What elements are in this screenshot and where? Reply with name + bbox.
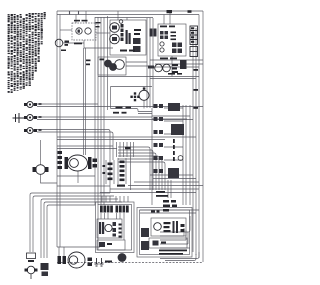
box5 text rows [159,250,187,252]
box5 left cluster 1 [141,228,149,237]
wire top bus ticks [70,11,79,15]
label bk row [116,107,123,109]
wire row y186 [57,185,110,187]
box3 switch 1 [154,104,158,108]
box2 pilot circle 1 [160,42,164,46]
wire connA bracket [106,160,114,184]
box3 bottom dashes [156,191,165,193]
bottom-left relay marks [28,260,34,262]
notes column 6 [23,18,25,89]
bus label ticks [96,22,101,23]
bandB marks [99,242,105,247]
wire bus row 4a [57,136,196,138]
box3 pilot circle [178,156,183,161]
cascade tick [125,147,131,149]
pre-box5 cluster [163,200,169,203]
wire right mid row 5 [110,188,199,190]
box3 switch 4 [154,143,158,147]
arrow dash [105,261,112,263]
right row marks 2 [172,64,178,66]
subboxA marks [113,222,117,226]
wire box4 pin drops B [117,213,125,240]
wire nest corner 2 [33,196,114,252]
wire right row y60 [150,59,203,61]
lamp circle B [55,39,63,47]
wire nest corner 5 [47,205,96,258]
box4 bottom-center outline [96,202,135,253]
box4 header pins A [100,206,103,213]
fan capacitor star [134,92,136,94]
wire cascade 6 [118,162,165,190]
lampbox label [100,59,105,61]
clock circle 1 [76,28,82,34]
wire fan feed loop [111,87,153,114]
bottom motor ellipse [68,252,85,268]
box5 feed ticks [151,210,155,212]
wire box5 bandD outline [149,238,187,248]
box3 lower cluster [168,168,179,178]
wire right mid row 1 [150,174,193,176]
box5 bottom-right outline [137,208,192,258]
wire box3 stub 1 [164,107,183,109]
wire right labels row1 [155,63,203,65]
wire nest corner 4 [44,202,122,258]
wire bottom nest 1 [160,252,199,259]
wire right bus 4 [192,31,194,252]
box1 bottom dashes [120,50,127,52]
wire fan vertical 6 [130,142,132,190]
box3 below-cluster drops [168,180,171,198]
bottom-left lamp tail [30,274,32,279]
wire cascade 4 [118,156,159,190]
motor right marks [93,159,98,163]
wire fan vertical 2 [116,142,118,157]
wire box1-box2 vertical 1 [146,18,148,108]
bottom-left relay box [27,253,36,259]
right row marks 1 [148,66,154,69]
box1 right marks top [134,29,141,31]
box5 left cluster 2 [141,241,149,250]
plug symbol [13,113,25,123]
terminal strip TB1 [190,26,198,45]
bandD marks [153,241,159,246]
connector B pins [120,161,125,164]
right row label below [168,73,175,75]
wire bottomright h5 [160,247,190,249]
connector column pins [58,151,63,154]
box1 lamp circle top [110,23,120,33]
wire row y176 [57,175,95,177]
notes column 4 [17,15,19,91]
wire box1-box2 vertical 3 [152,18,154,108]
wire box3 stub 5 [164,159,183,161]
subboxA bars left [99,222,101,234]
box1 center bars [126,30,128,44]
right row circle 2 [163,64,171,72]
wire motor tail [77,171,79,183]
wire clock top drops [76,11,86,23]
lampbox dark lamp 1 [104,60,112,68]
wire circleB right [63,42,84,44]
wire mid verticals b [85,48,87,155]
box1 right cluster [133,38,141,44]
wire center bus 5 [107,16,109,110]
wire center bus 4 [103,17,105,205]
notes column 1 [8,14,10,93]
subboxA circle [105,224,112,231]
wire box3 stub 2 [164,120,183,122]
wire bottom-left shelf [57,246,100,248]
wire box5 subboxC outline [151,218,186,236]
wire right row y76 [150,77,199,79]
wire top bus N [95,17,153,19]
top bus tick right 2 [188,10,192,13]
wire right mid row 3 [134,181,199,183]
wire pin drops [102,196,128,202]
bottom-left lamp [27,266,35,274]
box1 contact column [121,24,124,28]
wire box4 subboxA outline [97,219,122,238]
box3 top cluster [168,103,180,111]
wire fan vertical 1 [112,150,114,160]
wire right border [202,11,204,262]
notes column 7 [26,14,28,86]
wire supply row 3a [37,130,110,194]
bottom-left switch blob [41,263,49,270]
wire bottomright stubs [184,228,188,244]
fan motor circle [139,90,149,100]
wire box1-box2 vertical 2 [149,18,151,108]
connector A pins [108,163,113,166]
wire right mid row 4 [128,185,203,187]
wire right bus 3 [195,28,197,255]
mid bus labels [86,60,91,62]
subboxC pins [181,224,185,227]
box2 top label [160,26,167,28]
bottom-left switch blob 2 [42,272,49,277]
box1 lamp top filament [112,26,117,30]
notes column 12 [41,13,43,44]
wire bus row 5a [57,145,113,147]
notes column 3 [14,14,16,91]
wire motor drop bottom [41,175,58,184]
top bus tick right 1 [167,10,173,13]
wire bus row 4b [57,139,165,141]
box1 lamp bottom filament [112,37,117,41]
box2 bottom label [160,58,168,60]
wire clock box dashed [72,23,96,40]
right bus label 3 [194,107,199,109]
wire bottomright h4 [160,243,188,245]
terminal strip TB1 ticks [191,27,194,29]
wire clock to box1 [96,32,110,34]
bottom-left lamp ticks [25,269,29,272]
supply terminal 3 [27,128,33,134]
wire top bus L2 [57,14,199,16]
circleB marks [65,41,70,43]
wire supply row 3b [37,132,113,150]
wire box3 top edge [152,116,190,119]
wire box2 top drops [164,11,170,24]
wire connB bracket [118,158,126,184]
wire lamp box outline [98,57,126,75]
wire fan vertical 7 [133,142,135,157]
wire left border [56,11,58,247]
right bus label 1 [194,69,199,71]
supply terminal 1 [27,102,33,108]
wire fan vertical 4 [123,142,125,157]
clock label above [74,20,80,22]
box1 lamp circle bottom [110,34,120,44]
subboxC dashes [173,221,175,233]
bottom motor left terminals [58,256,62,264]
box4 header pins B [116,206,119,213]
terminal strip TB2 [190,47,198,57]
wire box4 bandB outline [97,240,125,250]
left motor side marks [33,167,37,172]
wire box3 vertical 1 [182,105,184,205]
notes column 9 [32,13,34,80]
wire supply row 2b [37,119,193,121]
box2 dash column [171,32,177,34]
label row2 [113,112,119,114]
wire bottom nest 2 [165,254,196,261]
notes column 10 [35,13,37,72]
wire box3 vertical 2 [185,105,187,205]
wire box3 left edge [151,108,153,205]
wire motor drop left [40,140,42,165]
hatched lamp on dashed line [118,253,127,262]
right bus label 2 [194,89,199,91]
wire clock left feed [60,29,72,31]
wire left border inner [59,15,61,248]
subboxC circle [154,223,162,231]
wire supply row 1b [37,106,203,108]
wire row y76 [98,76,153,78]
lampbox outline lamp [115,60,125,70]
convection motor ellipse [68,155,88,171]
wire box5 feed rows [140,210,199,213]
notes column 2 [11,14,13,93]
right row cluster [180,60,187,69]
clock circle 2 [85,28,91,34]
box1 small pilot circle [119,20,123,24]
right row circle 1 [155,64,163,72]
box4 inner outline [98,205,132,251]
wire box1 outline [110,20,146,55]
box3 relay cluster [171,124,184,135]
connector A side ticks [103,165,106,167]
wire bus row 5b [57,148,117,150]
wire cascade 2 [118,150,153,190]
wire box3 stub 3 [164,133,183,135]
notes column 13 [44,12,46,19]
wire right mid row 6 [100,192,196,194]
clock circle 1 fill [78,30,80,33]
wire center bus 2 [97,17,99,205]
wire cascade 5 [118,159,162,190]
wire center bus 1 [94,17,96,205]
supply terminal 2 [27,115,33,121]
circleB tick label [61,50,66,52]
wire cascade 1 [118,147,150,190]
connector B below marks [117,185,125,187]
wire box2 bottom drop [171,56,173,77]
wire lampbox exits [126,62,150,66]
wire fan vertical 5 [126,142,128,157]
wire center bus 3 [100,17,102,205]
convection motor cap right [88,157,92,169]
box2 contact block 1 [160,31,164,35]
box5 inner outline [140,210,190,255]
wire right bus 2 [198,15,200,259]
bottom motor right marks [88,258,93,262]
wire box2 outline [158,24,186,56]
wire mid verticals a [83,48,85,155]
clock label below [74,43,82,45]
wire clock drop [84,40,113,48]
left motor circle [36,165,46,175]
subboxC marks [164,222,171,224]
box2 pilot circle 2 [160,48,164,52]
wire bottom dashed line [57,262,203,264]
wire nest corner 3 [41,199,118,258]
wire box3 stub 4 [164,146,183,148]
box2 switch cluster [172,43,177,48]
wire supply row 1a [37,103,98,105]
box3 switch 6 [154,169,158,173]
wire box4 pin drops A [101,213,108,219]
box3 switch 3 [154,130,158,134]
box3 switch 2 [154,117,158,121]
wire top bus L1 [57,10,203,12]
notes column 11 [38,13,40,62]
wire bottomright h1 [160,216,190,232]
lampbox dark lamp 2 [109,63,117,71]
box3 vertical label [173,139,175,143]
wire right labels row2 [150,66,199,68]
wire supply row 2a [37,116,152,118]
wire cascade 3 [118,153,156,190]
relay K1 block [150,29,153,37]
notes column 5 [20,14,22,90]
wire bottomright h2 [160,235,184,237]
wire right mid row 2 [153,178,196,180]
wire fan vertical 3 [119,142,121,157]
subboxA pins [119,224,122,226]
box3 switch 5 [154,156,158,160]
ground symbols [95,258,104,266]
fan circle tick [143,88,146,90]
wire bottomright h3 [160,239,186,241]
wire box3 vertical 3 [189,105,191,205]
notes column 8 [29,13,31,86]
convection motor cap left [65,157,69,169]
wire box1 top drops [118,11,127,20]
wire shelf drops [59,247,64,256]
wire nest corner 1 [30,193,110,252]
